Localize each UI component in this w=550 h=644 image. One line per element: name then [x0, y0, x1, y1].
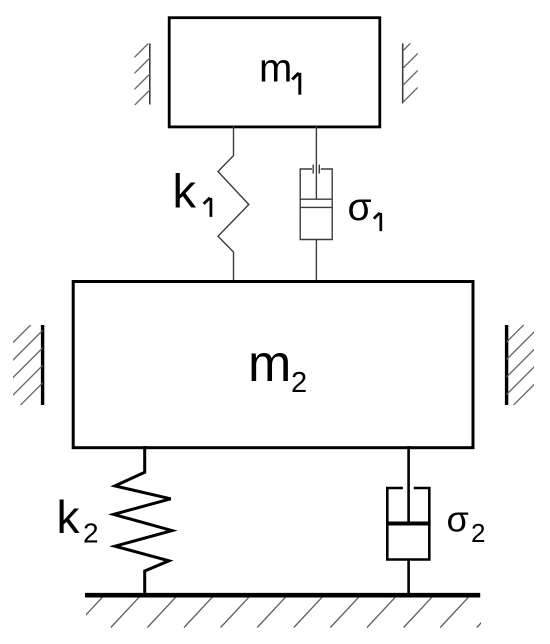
rod from m2 to damper sigma2	[407, 446, 410, 523]
svg-text:k: k	[57, 491, 81, 543]
wall left of m1	[149, 44, 151, 105]
damper sigma2 cylinder	[387, 488, 429, 560]
label m1	[259, 47, 300, 95]
mass m2	[73, 282, 473, 448]
damper sigma2 piston	[386, 522, 431, 526]
hatching of left wall m2	[12, 312, 44, 414]
spring k1 between m1 and m2	[218, 126, 249, 281]
label sigma1	[348, 186, 381, 231]
svg-text:σ: σ	[348, 186, 372, 229]
svg-text:2: 2	[83, 518, 99, 549]
damper sigma1 piston	[300, 199, 332, 207]
svg-text:k: k	[173, 164, 197, 217]
ground hatching	[74, 596, 506, 628]
ground line	[85, 593, 480, 598]
spring k2 between m2 and ground	[114, 446, 172, 594]
svg-text:σ: σ	[447, 499, 469, 540]
hatching of right wall m2	[506, 311, 538, 413]
svg-text:2: 2	[291, 367, 307, 399]
svg-text:m: m	[248, 335, 291, 393]
label m2	[248, 335, 307, 399]
damper sigma1 cylinder	[300, 165, 332, 240]
label k1	[173, 164, 211, 217]
mass m1	[169, 18, 380, 127]
svg-text:2: 2	[471, 518, 485, 548]
label k2	[57, 491, 99, 549]
svg-text:m: m	[259, 47, 292, 91]
hatching of left wall m1	[134, 41, 151, 106]
rod from m1 to damper sigma1	[315, 126, 317, 199]
wall right of m2	[505, 325, 508, 405]
label sigma2	[447, 499, 486, 549]
wall right of m1	[402, 43, 404, 103]
rod from damper sigma1 to m2	[315, 240, 317, 282]
rod from damper sigma2 to ground	[407, 560, 410, 596]
hatching of right wall m1	[402, 35, 419, 103]
wall left of m2	[41, 325, 44, 405]
